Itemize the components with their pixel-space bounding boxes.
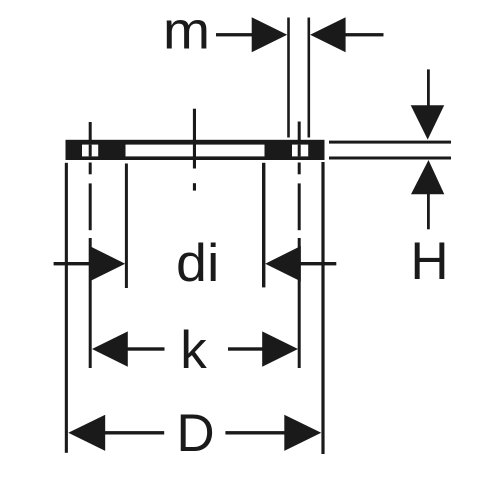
svg-text:D: D [176, 404, 214, 463]
svg-text:k: k [180, 321, 207, 380]
svg-text:m: m [163, 0, 210, 60]
svg-text:di: di [176, 233, 219, 292]
svg-text:H: H [410, 232, 448, 291]
